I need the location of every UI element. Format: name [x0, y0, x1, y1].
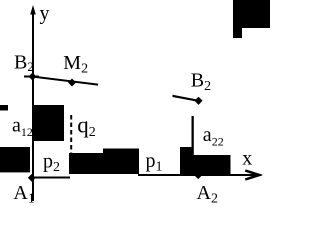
point dot on x-axis	[194, 171, 202, 179]
black patch right of p2	[69, 153, 139, 174]
tick line at B2 level	[24, 76, 39, 78]
point dot B2 left	[29, 73, 37, 81]
point dot B2 right	[194, 97, 202, 105]
black patch top-right	[233, 0, 270, 28]
black patch left of p2	[0, 147, 30, 172]
y-axis arrowhead	[30, 5, 36, 15]
black patch between a12 and q2	[34, 105, 64, 141]
horizontal line left graph	[30, 177, 70, 179]
point dot A1	[28, 174, 36, 182]
point dot M2	[68, 79, 76, 87]
x-axis line right graph	[138, 174, 256, 176]
x-axis arrowhead	[245, 169, 263, 180]
black patch q2-p1 upper	[103, 149, 139, 175]
vertical line at a22	[192, 116, 194, 174]
dashed line q2	[70, 115, 72, 153]
black patch below a22	[193, 155, 231, 174]
black patch left of a22	[180, 147, 193, 174]
black patch left edge above a12	[0, 105, 8, 111]
black patch top-right tab	[233, 28, 242, 38]
segment B2 to M2 end	[33, 76, 98, 86]
segment stub to B2 right dot	[173, 95, 199, 102]
svg-text:x: x	[242, 148, 252, 170]
svg-text:y: y	[40, 3, 50, 25]
y-axis line	[32, 8, 34, 201]
